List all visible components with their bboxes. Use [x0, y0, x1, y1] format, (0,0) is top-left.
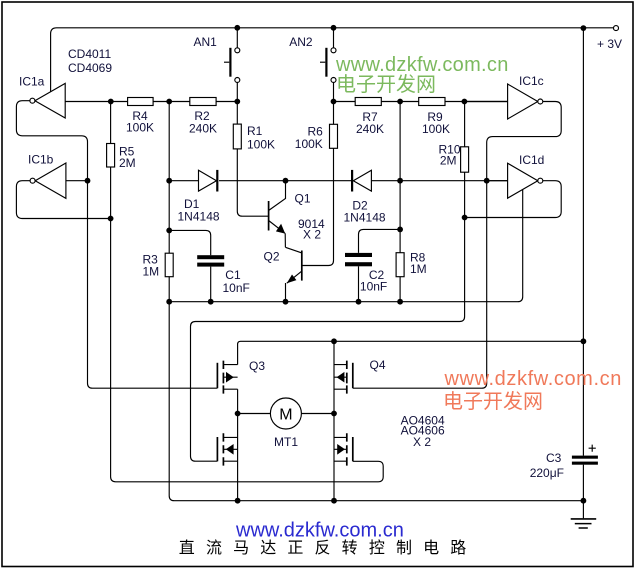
- wire IC1b output loop to R5 node: [16, 181, 110, 219]
- svg-text:1N4148: 1N4148: [344, 211, 386, 225]
- capacitor C1: [197, 255, 224, 266]
- resistor R2: [190, 98, 216, 106]
- wire D2 node down: [399, 181, 401, 230]
- wire R6 bottom to Q2 base: [303, 148, 334, 265]
- node bridge rail +3V: [581, 338, 587, 344]
- svg-text:240K: 240K: [356, 122, 384, 136]
- transistor Q1: [269, 181, 286, 248]
- svg-text:220μF: 220μF: [530, 466, 564, 480]
- wire motor right: [301, 413, 334, 415]
- node IC1b output: [108, 216, 114, 222]
- node Q1 collector: [283, 178, 289, 184]
- wire IC1b output node to Q4 lower gate: [111, 219, 384, 482]
- node A R5: [108, 99, 114, 105]
- svg-text:C3: C3: [546, 451, 562, 465]
- node D2 anode: [397, 178, 403, 184]
- transistor Q3 upper P-MOSFET: [217, 361, 237, 394]
- wire IC1d input: [487, 180, 508, 182]
- node B R10: [462, 99, 468, 105]
- node top rail AN2: [331, 25, 337, 31]
- wire top +3V rail: [51, 28, 614, 92]
- svg-text:240K: 240K: [189, 122, 217, 136]
- resistor R5: [107, 144, 115, 168]
- svg-text:1N4148: 1N4148: [178, 210, 220, 224]
- svg-text:10nF: 10nF: [223, 281, 250, 295]
- wire Q1 node to D2: [286, 180, 353, 182]
- wire D1 right to Q1 collector node: [219, 180, 286, 182]
- op-amp IC1a inverter: [30, 83, 65, 118]
- wire R8 top: [399, 229, 401, 252]
- terminal +3V: [614, 26, 619, 31]
- resistor R6: [330, 124, 338, 148]
- transistor Q4 upper P-MOSFET: [334, 361, 353, 394]
- svg-text:CD4011: CD4011: [68, 47, 111, 61]
- node bridge rail Q4: [331, 338, 337, 344]
- svg-text:X 2: X 2: [303, 228, 321, 242]
- wire Q3 drain column: [237, 389, 239, 501]
- node D1 anode: [166, 178, 172, 184]
- node IC1d input: [484, 178, 490, 184]
- svg-text:Q4: Q4: [370, 358, 386, 372]
- svg-text:2M: 2M: [119, 156, 136, 170]
- resistor R1: [233, 124, 241, 149]
- wire R6 top: [333, 102, 335, 125]
- op-amp IC1d inverter: [508, 163, 543, 198]
- wire R5 top: [110, 102, 112, 144]
- svg-text:R1: R1: [247, 124, 263, 138]
- svg-text:+ 3V: + 3V: [597, 37, 622, 51]
- svg-text:10nF: 10nF: [360, 280, 387, 294]
- svg-text:100K: 100K: [126, 121, 154, 135]
- svg-text:IC1c: IC1c: [519, 74, 544, 88]
- svg-text:1M: 1M: [410, 262, 427, 276]
- diode D2: [352, 170, 371, 192]
- node C2 top: [397, 227, 403, 233]
- wire C1 bottom: [210, 267, 212, 302]
- svg-text:100K: 100K: [295, 137, 323, 151]
- node B R7R9: [397, 99, 403, 105]
- node B AN2: [331, 99, 337, 105]
- node IC1b input: [85, 178, 91, 184]
- node A R1: [234, 99, 240, 105]
- motor MT1: [270, 398, 301, 429]
- resistor R8: [396, 253, 404, 277]
- node bottom rail Q3: [235, 498, 241, 504]
- wire IC1c output loop to IC1d input and Q4 upper gate: [353, 102, 561, 389]
- svg-text:1M: 1M: [143, 264, 160, 278]
- wire D2 anode to IC1d input: [371, 180, 507, 182]
- svg-text:直 流 马 达 正 反 转 控 制 电 路: 直 流 马 达 正 反 转 控 制 电 路: [179, 539, 470, 557]
- svg-text:C1: C1: [225, 268, 241, 282]
- resistor R9: [419, 98, 445, 106]
- svg-text:R6: R6: [307, 124, 323, 138]
- wire bridge top rail: [238, 341, 584, 364]
- wire motor left: [238, 413, 271, 415]
- svg-text:www.dzkfw.com.cn: www.dzkfw.com.cn: [335, 54, 509, 76]
- svg-text:www.dzkfw.com.cn: www.dzkfw.com.cn: [444, 368, 622, 390]
- svg-text:AN2: AN2: [289, 35, 313, 49]
- wire Q4 column: [333, 341, 335, 500]
- op-amp IC1b inverter: [30, 163, 66, 198]
- capacitor C2: [345, 253, 372, 266]
- wire IC1d output node down-left to Q3 lower gate: [191, 218, 465, 462]
- node rail C2: [356, 299, 362, 305]
- svg-text:X 2: X 2: [413, 435, 431, 449]
- svg-text:MT1: MT1: [274, 435, 298, 449]
- node bottom rail Q4: [331, 498, 337, 504]
- resistor R7: [355, 98, 381, 106]
- wire AN2 column: [333, 28, 335, 102]
- transistor Q3 lower N-MOSFET: [217, 433, 237, 465]
- wire C1 branch: [169, 230, 211, 255]
- svg-text:IC1d: IC1d: [519, 153, 544, 167]
- svg-text:电子开发网: 电子开发网: [443, 390, 543, 413]
- node C1 top: [166, 228, 172, 234]
- svg-text:www.dzkfw.com.cn: www.dzkfw.com.cn: [235, 520, 404, 542]
- transistor Q2: [285, 247, 302, 301]
- wire R1 top: [236, 102, 238, 125]
- node rail R3: [166, 299, 172, 305]
- svg-text:100K: 100K: [422, 122, 450, 136]
- wire C2 branch: [359, 229, 401, 253]
- wire main node-A horizontal: [65, 101, 237, 103]
- wire AN1 column: [236, 28, 238, 102]
- node top rail +3V: [581, 25, 587, 31]
- svg-text:M: M: [279, 407, 292, 424]
- node rail Q2e: [283, 299, 289, 305]
- wire R1 bottom to Q1 base: [237, 149, 268, 216]
- wire IC1b input: [66, 180, 88, 182]
- svg-text:Q1: Q1: [295, 192, 311, 206]
- wire IC1d output loop to R10 bottom: [465, 181, 562, 218]
- node A x169: [166, 99, 172, 105]
- svg-text:AN1: AN1: [194, 35, 218, 49]
- node rail R8: [397, 299, 403, 305]
- svg-text:IC1b: IC1b: [28, 153, 54, 167]
- wire D1 left: [169, 180, 198, 182]
- op-amp IC1c inverter: [508, 84, 543, 119]
- wire IC1c input: [465, 101, 508, 103]
- wire R8 bottom: [399, 277, 401, 302]
- wire node-A column x169: [168, 102, 170, 254]
- switch AN1: [224, 48, 240, 83]
- diode D1: [199, 170, 218, 192]
- node bottom rail C3: [581, 498, 587, 504]
- node R10 IC1d output: [462, 215, 468, 221]
- svg-text:100K: 100K: [247, 138, 275, 152]
- svg-text:Q2: Q2: [264, 250, 280, 264]
- wire C2 bottom: [358, 266, 360, 301]
- wire R5 bottom: [110, 167, 112, 219]
- svg-text:2M: 2M: [440, 154, 457, 168]
- wire ground rail with IC1d tap: [169, 189, 523, 302]
- transistor Q4 lower N-MOSFET: [334, 433, 353, 465]
- capacitor C3: [572, 445, 598, 465]
- svg-text:IC1a: IC1a: [19, 75, 45, 89]
- switch AN2: [320, 48, 336, 83]
- svg-text:Q3: Q3: [249, 359, 265, 373]
- wire +3V column: [582, 28, 584, 501]
- svg-text:电子开发网: 电子开发网: [336, 73, 436, 96]
- wire R10 bottom: [464, 172, 466, 217]
- resistor R10: [461, 147, 469, 172]
- svg-text:CD4069: CD4069: [68, 61, 112, 75]
- wire main node-B horizontal: [334, 101, 508, 103]
- ground: [571, 501, 597, 528]
- node top rail AN1: [234, 25, 240, 31]
- wire IC1a output loop to IC1b input and Q3 upper gate: [16, 101, 217, 389]
- wire R10 top: [464, 102, 466, 147]
- node motor left: [235, 411, 241, 417]
- wire x169 column to bottom rail: [169, 277, 583, 501]
- node motor right: [331, 411, 337, 417]
- node rail C1: [208, 299, 214, 305]
- resistor R3: [165, 253, 173, 277]
- wire R7R9 node column: [399, 102, 401, 181]
- resistor R4: [128, 98, 154, 106]
